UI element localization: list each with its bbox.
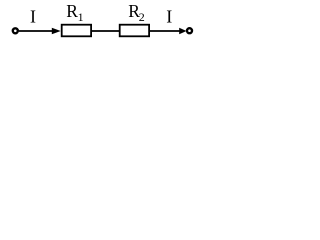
svg-text:I: I bbox=[30, 6, 36, 26]
svg-text:I: I bbox=[166, 6, 172, 26]
svg-text:R: R bbox=[66, 1, 78, 21]
svg-text:2: 2 bbox=[139, 10, 145, 24]
svg-text:1: 1 bbox=[78, 10, 84, 24]
